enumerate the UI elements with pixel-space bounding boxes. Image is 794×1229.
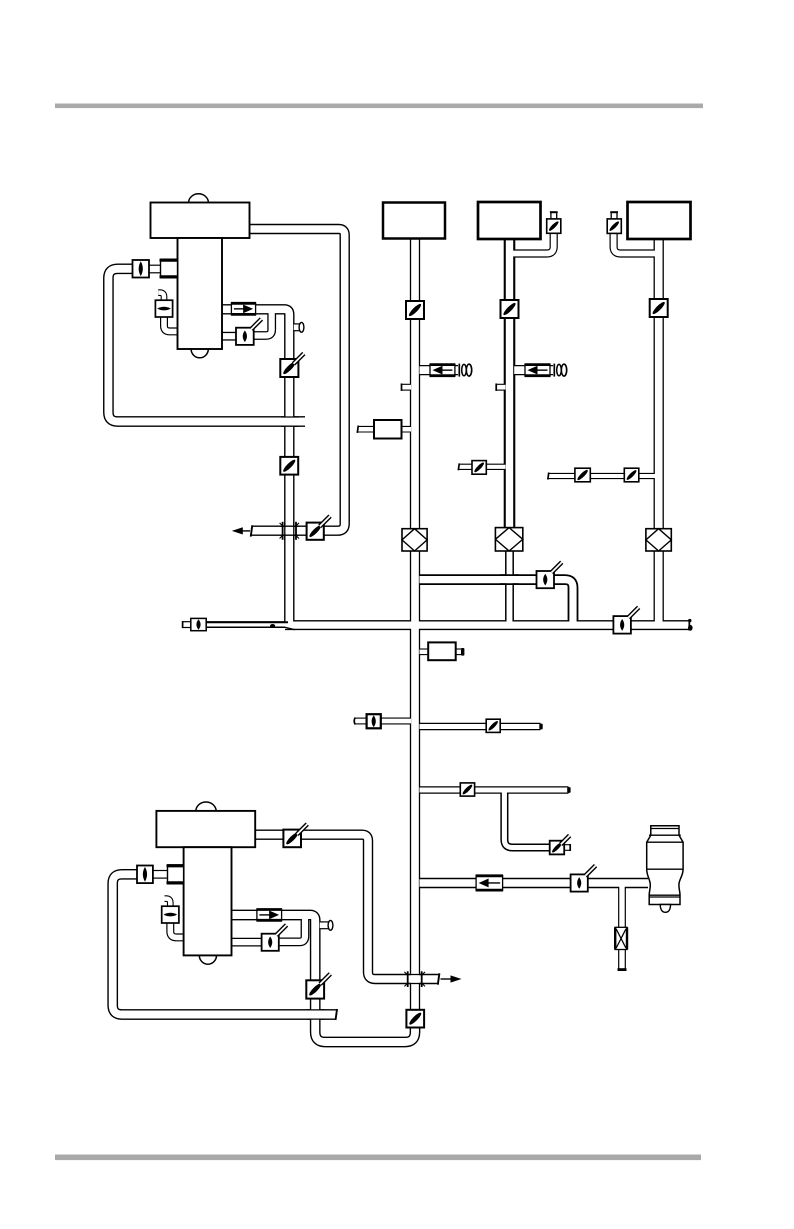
pipe sprayer valve stub (bore) bbox=[564, 845, 570, 850]
low point cap bbox=[354, 718, 355, 725]
valve branch y790 bbox=[460, 783, 474, 796]
water heater 1 relief dome bbox=[189, 194, 209, 203]
lens valve hot branch bbox=[537, 571, 555, 588]
pipe manifold left narrow segment (outline) bbox=[206, 621, 291, 628]
pipe curl stub heater2 (outline) bbox=[165, 899, 171, 908]
top grey rule bbox=[55, 104, 703, 109]
pipe low-point check to main (outline) bbox=[380, 718, 411, 725]
thermostat fitting heater2 bbox=[162, 906, 179, 923]
tank fitting heater1 bbox=[161, 259, 178, 278]
stub cap fixture1 bbox=[401, 383, 403, 391]
branch stub cap fixture2 bbox=[457, 463, 460, 470]
hose end cap heater1 bbox=[299, 322, 304, 332]
pipe heater1 header to outlet line (outline) bbox=[250, 229, 345, 531]
inline fitting cap bbox=[461, 648, 464, 656]
junction lines union A bbox=[281, 525, 299, 527]
inline fitting main bbox=[428, 642, 456, 660]
pipe capped stub heater1 (outline) bbox=[294, 323, 301, 331]
pipe fixture3 down (bore) bbox=[655, 239, 663, 529]
pipe twin-valve branch into fixture3 line (bore) bbox=[548, 474, 655, 478]
pipe strainer drop upper (outline) bbox=[618, 883, 626, 928]
inline strainer bbox=[615, 927, 627, 949]
water heater 2 tank body bbox=[184, 847, 232, 955]
pipe pump suction line (bore) bbox=[420, 879, 649, 887]
union fitting B bars bbox=[407, 971, 409, 987]
pipe heater1 body to lens valve (bore) bbox=[222, 333, 237, 339]
sprayer stub cap bbox=[569, 844, 571, 851]
pipe check valve to tank fitting 1 (outline) bbox=[149, 265, 161, 274]
water heater 2 bottom dome bbox=[199, 947, 216, 965]
shutoff valve heater1 upper bbox=[280, 359, 298, 377]
pipe stub left of fixture2 line (outline) bbox=[496, 384, 505, 391]
flow arrow bottom right bbox=[441, 978, 452, 980]
shutoff valve main bottom bbox=[406, 1010, 424, 1028]
pipe regulator1 stub (bore) bbox=[358, 427, 412, 432]
vacuum breaker valve fixture3 bbox=[607, 219, 621, 234]
shutoff valve fixture2 line bbox=[501, 300, 519, 318]
fixture box 1 bbox=[383, 203, 445, 239]
disconnect diamond 1 bbox=[402, 529, 427, 551]
pipe drain elbow heater2 (outline) bbox=[170, 923, 184, 937]
pipe strainer drop lower (bore) bbox=[619, 949, 624, 970]
pipe heater2 cold loop to bottom crossing (outline) bbox=[113, 874, 336, 1014]
pipe heater2 cold loop to bottom crossing (bore) bbox=[113, 874, 336, 1014]
water heater 2 header bbox=[156, 811, 255, 847]
pipe heater2 inner branch (outline) bbox=[279, 917, 305, 942]
pipe strainer drop upper (bore) bbox=[619, 883, 624, 928]
twin branch cap bbox=[547, 473, 550, 480]
pipe accumulator stub right (outline) bbox=[455, 648, 462, 655]
pipe stub left of fixture1 line (bore) bbox=[402, 385, 412, 390]
pipe city-water branch 2 (bore) bbox=[514, 366, 553, 374]
branch valve fixture2 line bbox=[472, 461, 486, 475]
pipe regulator1 stub (outline) bbox=[358, 426, 412, 433]
flow arrow outlet left bbox=[242, 530, 250, 532]
pipe check valve to tank fitting 1 (bore) bbox=[149, 266, 161, 272]
water filter body bbox=[647, 826, 683, 905]
union fitting A bars bbox=[282, 522, 284, 540]
pipe branch with valve y790 (bore) bbox=[420, 787, 569, 792]
shutoff valve heater1 lower bbox=[280, 457, 298, 475]
pipe accumulator stub left (bore) bbox=[420, 650, 430, 655]
pipe city-water branch 2 (outline) bbox=[514, 365, 553, 375]
pipe heater2 body to lens valve (bore) bbox=[232, 939, 263, 945]
thermostat fitting heater1 bbox=[155, 300, 172, 317]
pipe hot branch right (bold) (outline) bbox=[420, 574, 538, 585]
pipe manifold left narrow segment (bore) bbox=[206, 623, 291, 627]
pipe capped stub heater1 (bore) bbox=[294, 324, 301, 330]
disconnect diamond 3 bbox=[646, 529, 671, 551]
regulator stub cap bbox=[357, 425, 358, 432]
pipe fixture1 down (outline) bbox=[410, 238, 420, 529]
vacuum breaker fixture2 stub bbox=[551, 212, 557, 219]
lens valve manifold bbox=[613, 616, 631, 634]
pipe heater1 cold loop (outline) bbox=[108, 269, 305, 422]
pipe heater1 cold loop (bore) bbox=[108, 269, 305, 422]
pipe heater1 hot outlet down to manifold (outline) bbox=[222, 309, 289, 624]
pipe heater1 inner branch (outline) bbox=[254, 311, 272, 336]
pipe stub left of fixture1 line (outline) bbox=[402, 384, 412, 391]
pipe city-water branch 1 (bore) bbox=[420, 366, 459, 374]
pipe heater2 hot outlet down and bottom run to main (outline) bbox=[232, 915, 416, 1042]
pipe fixture2 diamond to manifold (bore) bbox=[507, 551, 513, 625]
pipe pump suction line (outline) bbox=[420, 878, 649, 888]
pipe fixture3 diamond to manifold (bore) bbox=[655, 551, 663, 625]
pipe fixture2 side tap (outline) bbox=[513, 232, 554, 254]
shutoff valve fixture1 line bbox=[406, 301, 424, 319]
pipe fixture3 side tap (bore) bbox=[614, 232, 655, 254]
lens valve pump line bbox=[571, 874, 588, 891]
shutoff valve heater2 line bbox=[306, 980, 324, 998]
junction lines crossing heater2 loop bbox=[307, 1009, 326, 1011]
pipe twin-valve branch into fixture3 line (outline) bbox=[548, 473, 655, 479]
pipe low-point check to main (bore) bbox=[380, 719, 411, 724]
valve drain branch bbox=[486, 719, 500, 732]
pipe drop to sprayer valve (outline) bbox=[504, 790, 550, 848]
water heater 1 bottom dome bbox=[191, 340, 208, 358]
water heater 1 header bbox=[151, 203, 250, 239]
stub cap fixture2 bbox=[495, 383, 497, 391]
bottom crossing cap bbox=[336, 1009, 338, 1020]
pipe branch with valve y790 (outline) bbox=[420, 786, 569, 794]
pipe capped stub heater2 (bore) bbox=[320, 922, 330, 928]
hose barb city water 1 bbox=[458, 364, 460, 377]
pipe strainer drop lower (outline) bbox=[618, 949, 626, 970]
pipe valve branch into fixture2 line (outline) bbox=[459, 464, 506, 470]
pipe manifold left capped stub (bore) bbox=[183, 622, 192, 627]
pipe heater2 inner branch (bore) bbox=[279, 917, 305, 942]
pipe city-water branch 1 (outline) bbox=[420, 365, 459, 375]
vacuum breaker valve fixture2 bbox=[547, 219, 561, 233]
vacuum breaker fixture3 stub bbox=[611, 212, 617, 219]
fixture box 3 bbox=[628, 202, 691, 239]
pipe main cold line (bore) bbox=[411, 551, 419, 1013]
pipe heater2 header to bottom junction (bore) bbox=[255, 835, 439, 979]
lens valve heater2 bypass bbox=[262, 934, 279, 951]
pipe drain elbow heater1 (bore) bbox=[164, 317, 178, 331]
pipe drain branch right (outline) bbox=[420, 723, 541, 731]
pipe drain elbow heater2 (bore) bbox=[170, 923, 184, 937]
twin valve B bbox=[624, 468, 639, 482]
check valve manifold left bbox=[191, 618, 206, 630]
pipe heater2 hot outlet down and bottom run to main (bore) bbox=[232, 915, 416, 1042]
check valve heater1 hot outlet bbox=[231, 303, 255, 314]
water heater 1 tank body bbox=[178, 238, 223, 349]
pipe drop to sprayer valve (bore) bbox=[504, 790, 550, 848]
pipe drain branch right (bore) bbox=[420, 724, 541, 729]
pipe hot branch right (bold) (bore) bbox=[420, 576, 538, 583]
twin valve A bbox=[575, 468, 590, 482]
pipe capped stub heater2 (outline) bbox=[320, 921, 330, 929]
pressure regulator bbox=[374, 420, 402, 439]
bottom junction end cap bbox=[438, 973, 440, 984]
pipe manifold main run (outline) bbox=[285, 620, 690, 630]
pipe curl stub heater2 (bore) bbox=[165, 899, 171, 908]
pipe sprayer valve stub (outline) bbox=[564, 844, 570, 851]
fixture box 2 bbox=[478, 202, 541, 239]
manifold end cap bbox=[688, 619, 690, 630]
pipe fixture2 down (bold) (bore) bbox=[506, 240, 513, 529]
pipe fixture2 diamond to manifold (outline) bbox=[505, 551, 514, 625]
hose barb city water 2 bbox=[553, 364, 555, 377]
check valve heater1 cold inlet bbox=[133, 260, 150, 278]
pipe stub left of fixture2 line (bore) bbox=[496, 385, 505, 390]
pipe hot branch valve to manifold (outline) bbox=[553, 580, 573, 625]
shutoff valve fixture3 line bbox=[650, 299, 668, 317]
pipe low-point stub (outline) bbox=[355, 718, 368, 725]
pipe accumulator stub left (outline) bbox=[420, 648, 430, 655]
shutoff valve heater2 header bbox=[283, 830, 301, 848]
pipe fixture3 diamond to manifold (outline) bbox=[654, 551, 664, 625]
pipe drain elbow heater1 (outline) bbox=[164, 317, 178, 331]
lens valve heater1 bypass bbox=[236, 328, 254, 345]
pipe heater1 hot outlet down to manifold (bore) bbox=[222, 309, 289, 624]
pipe heater1 inner branch (bore) bbox=[254, 311, 272, 336]
manifold junction dot bbox=[270, 624, 275, 628]
pipe fixture2 down (bold) (outline) bbox=[504, 240, 516, 529]
drain branch tip bbox=[539, 724, 542, 730]
pipe hot branch valve to manifold (bore) bbox=[553, 580, 573, 625]
pipe manifold left capped stub (outline) bbox=[183, 621, 192, 628]
junction lines union B bbox=[407, 974, 424, 976]
pipe heater1 body to lens valve (outline) bbox=[222, 332, 237, 341]
pipe accumulator stub right (bore) bbox=[455, 650, 462, 655]
pipe curl stub heater1 (outline) bbox=[158, 293, 164, 302]
pipe check valve to tank fitting 2 (outline) bbox=[153, 870, 168, 879]
pipe fixture2 side tap (bore) bbox=[513, 232, 554, 254]
pipe heater1 header to outlet line (bore) bbox=[250, 229, 345, 531]
pipe main cold line (outline) bbox=[410, 551, 420, 1013]
check valve low point bbox=[367, 714, 381, 728]
pipe manifold main run (bore) bbox=[285, 621, 690, 628]
pipe curl stub heater1 (bore) bbox=[158, 293, 164, 302]
check valve city water 1 bbox=[430, 365, 455, 376]
pipe heater2 header to bottom junction (outline) bbox=[255, 835, 439, 979]
disconnect diamond 2 bbox=[495, 528, 522, 551]
check valve heater2 cold inlet bbox=[137, 866, 153, 884]
pipe check valve to tank fitting 2 (bore) bbox=[153, 871, 168, 877]
check valve pump line bbox=[476, 876, 503, 890]
strainer drop cap bbox=[618, 968, 627, 971]
manifold stub cap bbox=[182, 621, 184, 628]
check valve city water 2 bbox=[525, 365, 550, 376]
tank fitting heater2 bbox=[168, 865, 184, 884]
hose end cap heater2 bbox=[328, 920, 333, 930]
shutoff valve outlet line bbox=[307, 523, 324, 540]
junction lines hot branch over fixture2 drop bbox=[500, 574, 519, 576]
pipe heater2 body to lens valve (outline) bbox=[232, 938, 263, 947]
sprayer valve bbox=[550, 841, 565, 855]
water heater 2 relief dome bbox=[196, 802, 216, 811]
manifold reducer diagonal bbox=[285, 627, 295, 630]
check valve heater2 hot outlet bbox=[257, 910, 282, 921]
pipe fixture3 down (outline) bbox=[654, 239, 664, 529]
pipe low-point stub (bore) bbox=[355, 719, 368, 724]
bottom grey rule bbox=[55, 1155, 701, 1161]
water filter nozzle bbox=[660, 905, 670, 913]
branch y790 tip bbox=[567, 787, 570, 793]
junction lines crossing heater1 loop bbox=[281, 416, 299, 418]
pipe valve branch into fixture2 line (bore) bbox=[459, 465, 506, 469]
pipe fixture1 down (bore) bbox=[411, 238, 419, 529]
outlet end cap bbox=[251, 525, 253, 536]
pipe fixture3 side tap (outline) bbox=[614, 232, 655, 254]
